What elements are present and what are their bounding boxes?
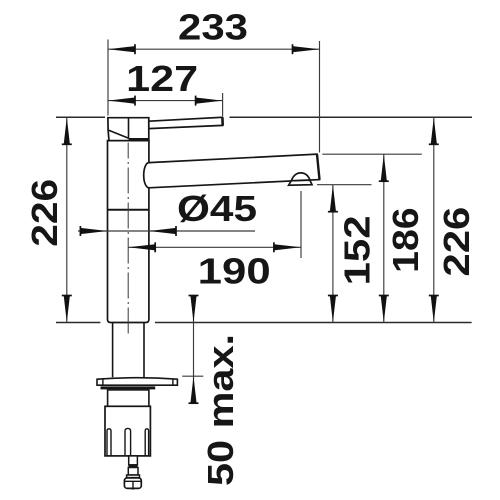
lever end cap thick edge bbox=[221, 117, 224, 125]
spout tube bbox=[144, 154, 320, 188]
arrow 190 left bbox=[128, 242, 155, 252]
arrow d45 left bbox=[80, 226, 107, 236]
label 226 left bbox=[24, 179, 65, 247]
label 152 bbox=[336, 215, 377, 285]
extension line aerator bottom y184.7 bbox=[317, 184, 372, 186]
arrow 226R bottom bbox=[429, 296, 439, 323]
T-bolt head top line bbox=[125, 480, 142, 482]
arrow 186 top bbox=[379, 154, 389, 181]
svg-text:233: 233 bbox=[178, 7, 248, 48]
extension line spout tip x319.5 bbox=[319, 41, 321, 153]
arrow 226L bottom bbox=[62, 296, 72, 323]
arrow d45 right bbox=[149, 226, 176, 236]
aerator dome bbox=[291, 173, 310, 181]
arrow 152 bottom bbox=[328, 296, 338, 323]
flange left end line bbox=[102, 379, 104, 386]
svg-text:127: 127 bbox=[126, 58, 198, 99]
T-bolt head bbox=[124, 478, 141, 489]
ribbed mounting nut bbox=[105, 406, 150, 456]
svg-text:226: 226 bbox=[436, 207, 477, 277]
escutcheon flange bbox=[97, 378, 177, 386]
washer bbox=[127, 475, 140, 478]
counter top line right bbox=[155, 322, 472, 324]
dimension 50max line bbox=[193, 296, 195, 404]
faucet head bbox=[108, 118, 149, 141]
dimension 226 right line bbox=[433, 117, 435, 322]
dimension 152 line bbox=[332, 185, 334, 323]
T-bolt bottom nub bbox=[130, 488, 136, 489]
label 50 max bbox=[200, 334, 241, 486]
arrow 226L top bbox=[62, 117, 72, 144]
threaded stud bbox=[129, 456, 138, 465]
top reference line right bbox=[230, 116, 473, 118]
handle base shadow band bbox=[129, 138, 149, 140]
svg-text:50 max.: 50 max. bbox=[200, 334, 241, 486]
centerline (dashed) bbox=[127, 143, 129, 334]
label 226 right bbox=[436, 207, 477, 277]
dimension 186 line bbox=[383, 154, 385, 322]
label 186 bbox=[385, 207, 426, 273]
stud dark band bbox=[128, 465, 137, 468]
arrow 226R top bbox=[429, 117, 439, 144]
nut slot left bbox=[107, 429, 111, 456]
aerator collar bbox=[289, 180, 312, 185]
svg-text:186: 186 bbox=[385, 207, 426, 273]
spout end cap thick edge bbox=[317, 154, 320, 179]
nut slot middle bbox=[125, 428, 131, 456]
stud lower section bbox=[128, 468, 138, 476]
svg-text:226: 226 bbox=[24, 179, 65, 247]
arrow 233 left bbox=[108, 44, 135, 54]
dimension 226 left line bbox=[66, 117, 68, 322]
nut slot right bbox=[145, 429, 148, 456]
arrow 50max bottom bbox=[189, 376, 199, 403]
head center split line bbox=[128, 118, 130, 139]
arrow 233 right bbox=[293, 44, 320, 54]
arrow 127 right bbox=[196, 96, 223, 106]
flange right end line bbox=[172, 379, 174, 386]
extension line aerator x301 bbox=[300, 191, 302, 258]
dimension 127 line bbox=[108, 100, 223, 102]
dimension d45 leader line bbox=[78, 230, 255, 232]
dimension 233 line bbox=[108, 48, 320, 50]
extension line left x108 bbox=[107, 40, 109, 116]
svg-text:190: 190 bbox=[198, 251, 271, 292]
arrow 152 top bbox=[328, 185, 338, 212]
arrow 50max top bbox=[189, 296, 199, 323]
lever wedge diagonal bbox=[108, 130, 128, 138]
dimension 190 line bbox=[128, 246, 301, 248]
body seam line bbox=[108, 209, 149, 211]
extension line lever tip x222.6 bbox=[222, 93, 224, 116]
lever handle bbox=[149, 117, 223, 128]
arrow 186 bottom bbox=[379, 296, 389, 323]
extension tick flange y376.2 bbox=[182, 375, 203, 377]
rubber seal bar bbox=[101, 386, 156, 389]
faucet body column bbox=[108, 141, 149, 323]
svg-text:152: 152 bbox=[336, 215, 377, 285]
shank tube below counter bbox=[112, 323, 114, 377]
top reference tick left bbox=[56, 116, 105, 118]
T-bolt head split bbox=[132, 481, 134, 488]
svg-text:Ø45: Ø45 bbox=[177, 188, 257, 229]
extension line spout top y154.2 bbox=[322, 153, 422, 155]
arrow 190 right bbox=[274, 242, 301, 252]
counter tick left bbox=[56, 322, 100, 324]
arrow 127 left bbox=[108, 96, 135, 106]
mounting cylinder bbox=[108, 390, 149, 406]
